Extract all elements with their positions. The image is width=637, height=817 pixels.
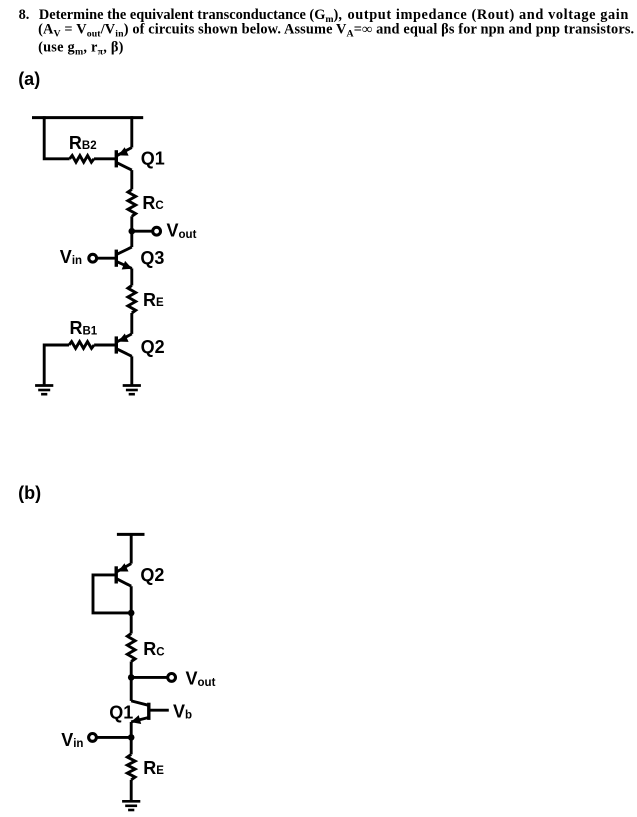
ground (circuit b) [122, 800, 140, 803]
terminal Vin [89, 254, 97, 262]
wire: RB1 to Q2 base [94, 344, 116, 347]
svg-text:(b): (b) [18, 483, 41, 503]
transistor Q3 (npn) [115, 250, 118, 267]
svg-text:Vin: Vin [60, 247, 82, 267]
svg-text:Q1: Q1 [141, 149, 165, 169]
transistor Q2 (pnp) [115, 336, 118, 353]
transistor Q1 (pnp) [115, 150, 118, 167]
ground (left, circuit a) [35, 384, 53, 387]
wire: rail to RB2 [44, 116, 69, 159]
node: Vout tap (circuit b) [128, 674, 135, 681]
wire: Q3 emitter to RE [130, 268, 133, 285]
terminal Vin (circuit b) [89, 734, 97, 742]
svg-text:Vb: Vb [173, 701, 192, 721]
wire: Q2 collector to ground [130, 356, 133, 386]
svg-text:Q3: Q3 [140, 248, 164, 268]
svg-text:Q2: Q2 [140, 565, 164, 585]
terminal Vout (circuit b) [168, 674, 176, 682]
transistor Q1 (npn, base on right) [147, 703, 150, 720]
svg-text:Vin: Vin [61, 730, 83, 750]
svg-text:RB2: RB2 [69, 133, 97, 153]
terminal Vout [153, 227, 161, 235]
wire: supply to Q2 emitter [130, 534, 133, 563]
svg-text:(use gm, rπ, β): (use gm, rπ, β) [38, 40, 124, 58]
wire: Q2 base loop to collector node [93, 575, 131, 613]
wire: Q1 emitter to Vin node [130, 722, 133, 755]
resistor RB2 [70, 156, 94, 163]
node: base-collector junction [128, 610, 135, 617]
wire: RB1 to left ground [44, 345, 69, 386]
power supply T (circuit b) [117, 533, 145, 536]
svg-text:Q2: Q2 [141, 337, 165, 357]
svg-text:Q1: Q1 [109, 703, 133, 723]
wire: Q1 base to Vb [151, 709, 169, 712]
wire: Q1 collector to Rc [130, 170, 133, 189]
resistor RB1 [69, 342, 94, 349]
svg-text:8.: 8. [19, 7, 30, 23]
wire: RE to ground [130, 780, 133, 802]
svg-text:RE: RE [143, 758, 164, 778]
wire: node to Vout terminal [132, 230, 153, 233]
svg-text:RC: RC [142, 193, 163, 213]
node: Vout tap [129, 228, 136, 235]
resistor RE [128, 286, 136, 314]
svg-text:(AV = Vout/Vin) of circuits sh: (AV = Vout/Vin) of circuits shown below.… [38, 21, 634, 39]
wire: Q1 emitter to rail [130, 116, 133, 147]
resistor Rc [128, 189, 136, 216]
svg-text:(a): (a) [18, 69, 40, 89]
svg-text:Vout: Vout [167, 221, 197, 241]
power rail (top of circuit a) [32, 116, 143, 119]
svg-text:Vout: Vout [186, 669, 216, 689]
transistor Q2 (pnp, diode-connected) [115, 566, 118, 583]
wire: Rc to Q3 collector [130, 216, 133, 247]
wire: RB2 to Q1 base [94, 157, 116, 160]
resistor RE (circuit b) [127, 754, 135, 779]
wire: Rc to Q1 collector [130, 662, 133, 701]
wire: node to Vout terminal (circuit b) [131, 676, 167, 679]
svg-text:RB1: RB1 [70, 318, 98, 338]
resistor Rc (circuit b) [127, 634, 135, 662]
ground (right, circuit a) [123, 384, 141, 387]
svg-text:output impedance (Rout) and vo: output impedance (Rout) and voltage gain [348, 7, 629, 23]
wire: Q2 collector to Rc [130, 586, 133, 633]
wire: RE to Q2 emitter [130, 313, 133, 334]
svg-text:RC: RC [143, 639, 164, 659]
wire: Vin to node [97, 736, 131, 739]
svg-text:RE: RE [143, 290, 164, 310]
node: Vin / emitter junction [128, 734, 135, 741]
wire: Vin to Q3 base [97, 257, 115, 260]
